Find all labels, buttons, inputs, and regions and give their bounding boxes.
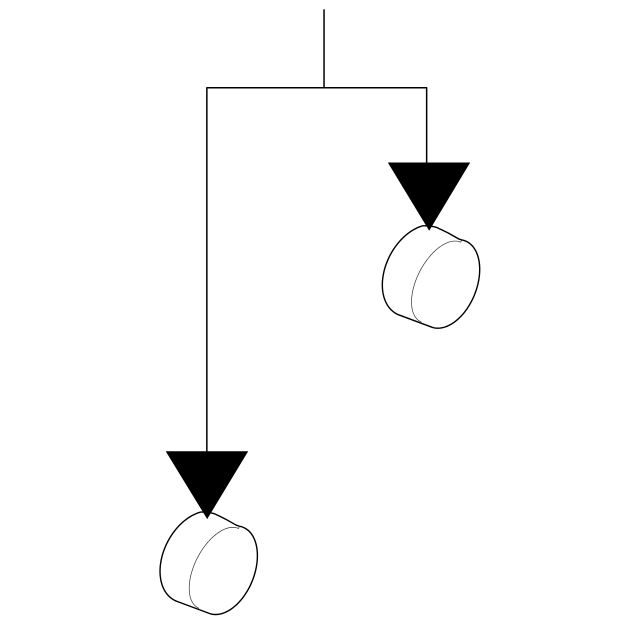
arrowhead: right cone bbox=[388, 163, 470, 231]
wire: crossbar with hanger drops bbox=[207, 88, 427, 451]
arrowhead: left cone bbox=[166, 451, 249, 519]
wire: root string bbox=[323, 10, 325, 88]
node: left cylinder weight bbox=[160, 512, 257, 614]
node: right cylinder weight bbox=[382, 226, 479, 328]
